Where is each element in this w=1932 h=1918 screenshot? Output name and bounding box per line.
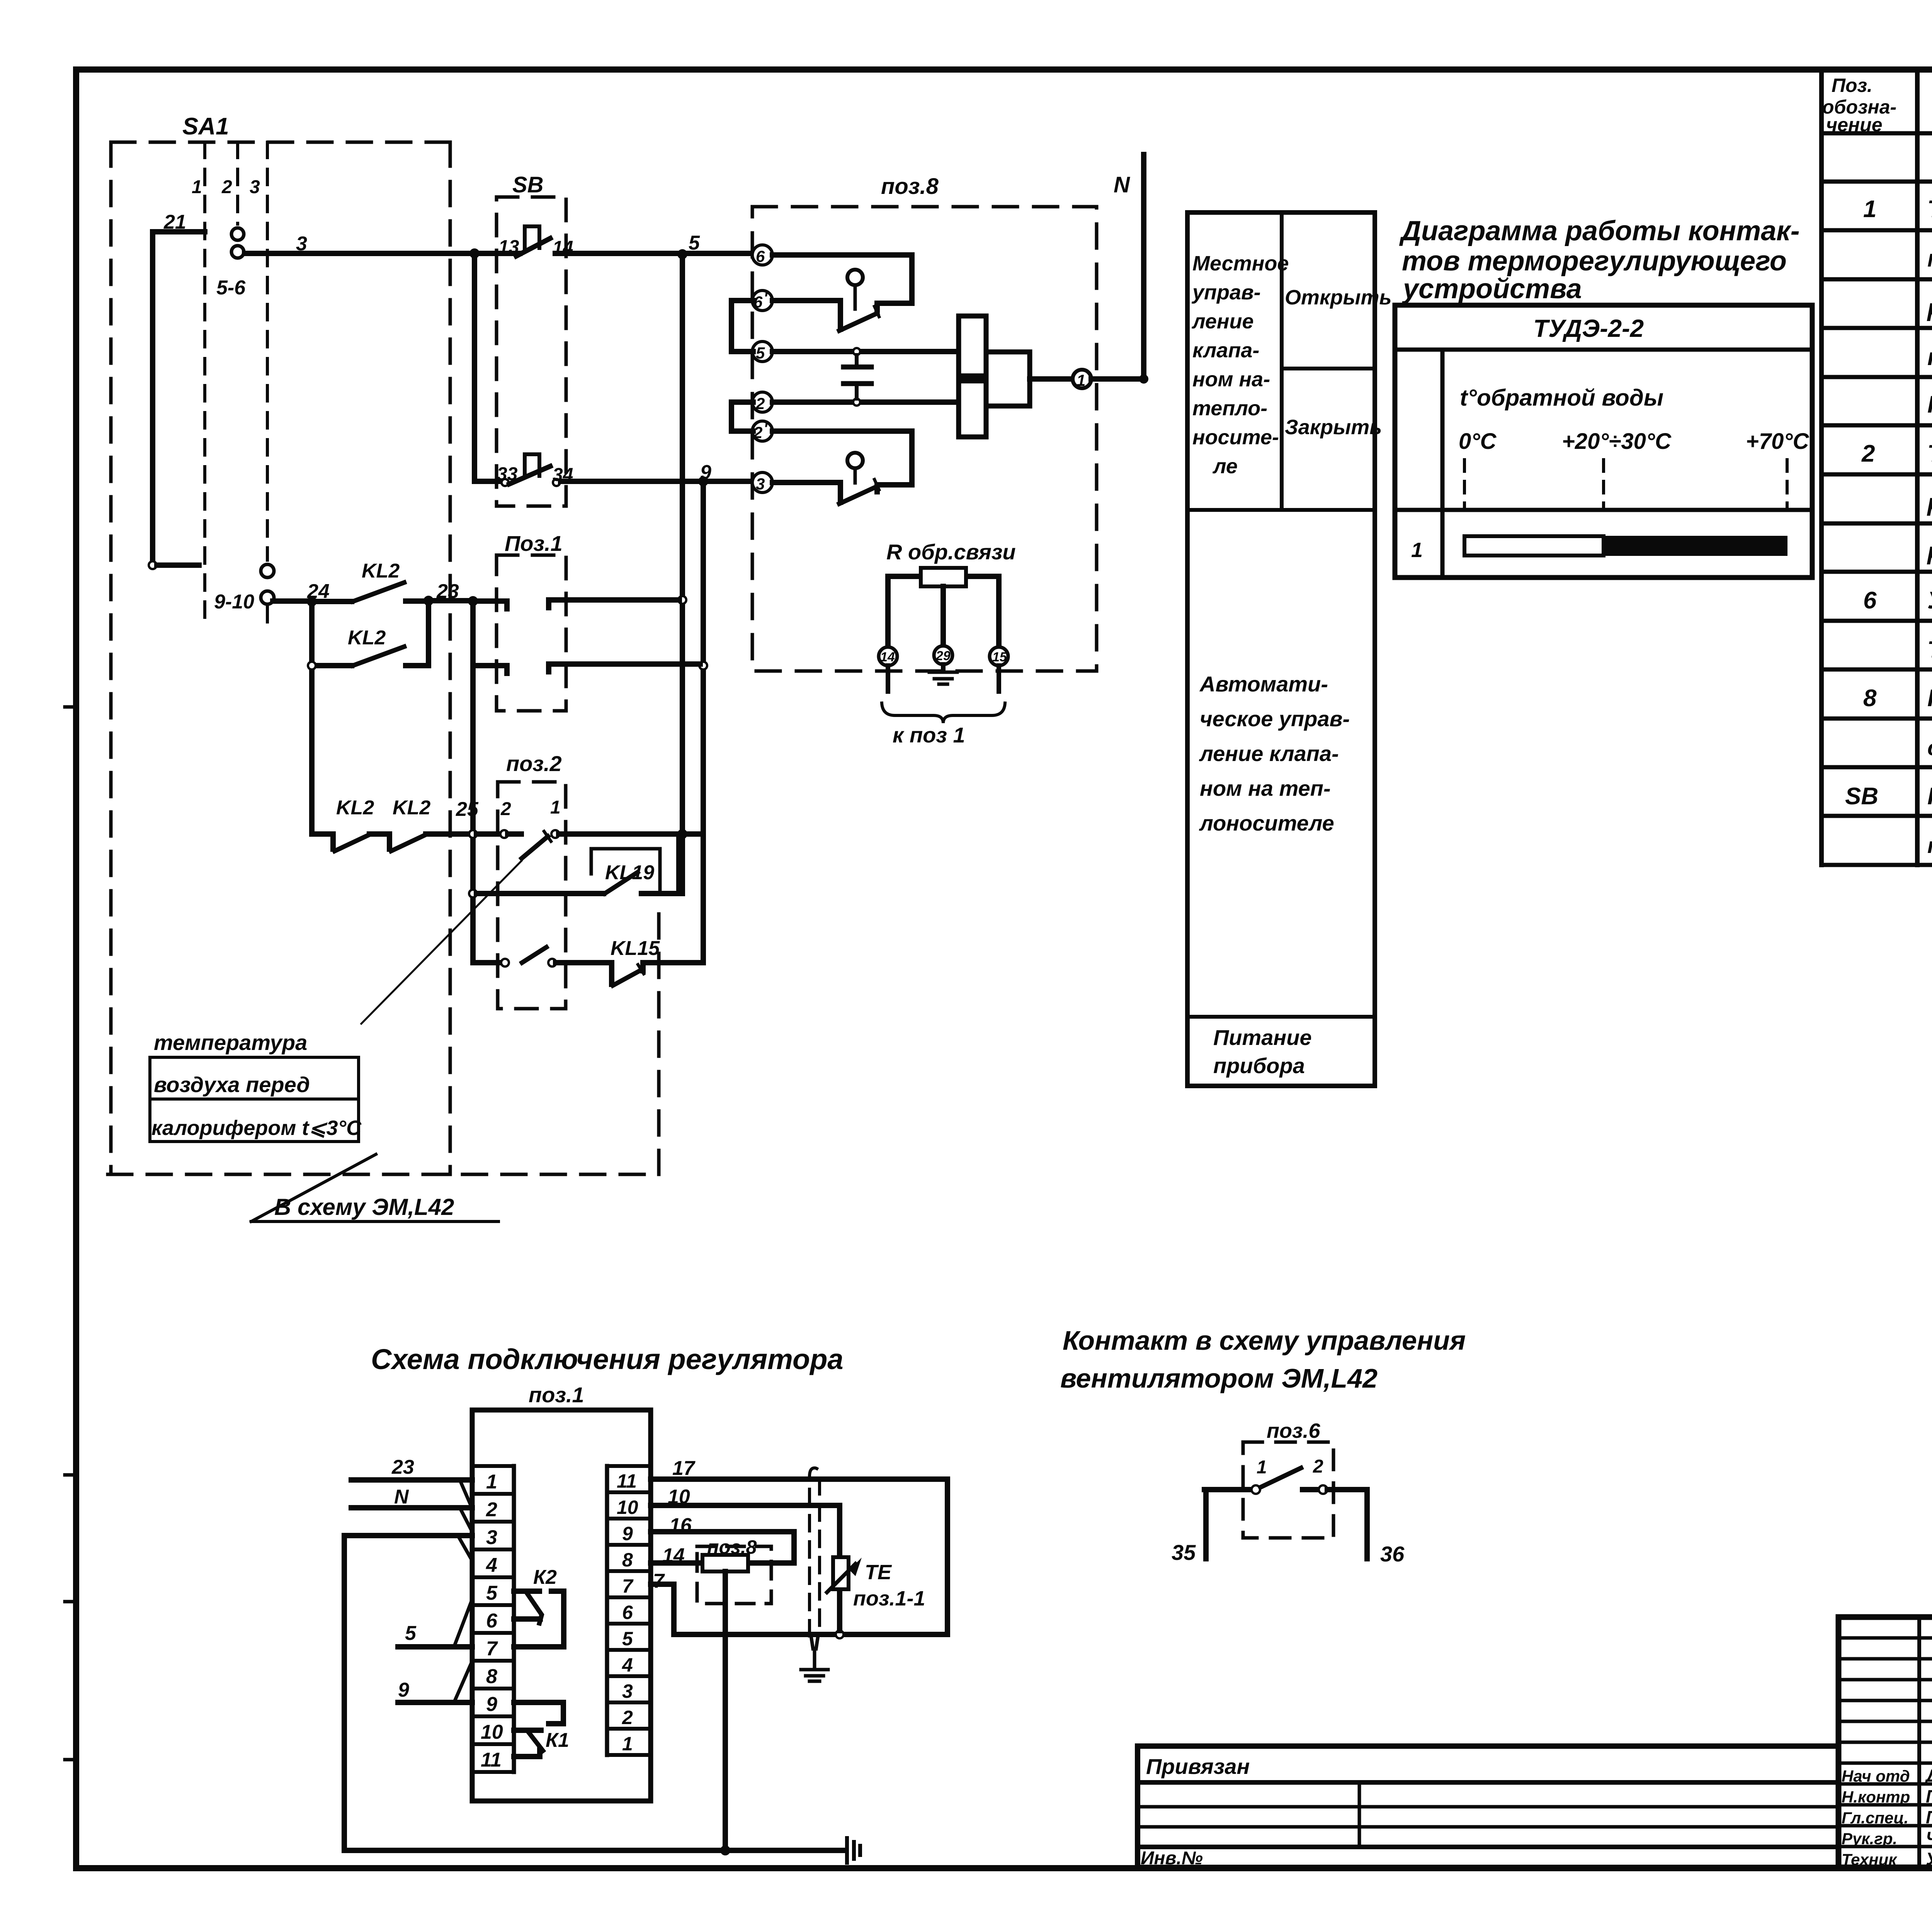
svg-text:чение: чение [1826, 114, 1883, 136]
svg-text:5: 5 [689, 232, 700, 254]
svg-text:SB: SB [512, 172, 544, 197]
svg-text:В схему ЭМ,L42: В схему ЭМ,L42 [274, 1194, 454, 1220]
svg-text:8: 8 [1863, 685, 1877, 712]
svg-text:4: 4 [622, 1654, 633, 1676]
svg-text:34: 34 [553, 465, 573, 485]
svg-text:ле: ле [1212, 455, 1238, 478]
svg-text:воздуха перед: воздуха перед [154, 1072, 310, 1097]
svg-text:ром температуры электрическим: ром температуры электрическим про- [1927, 295, 1932, 321]
svg-text:29: 29 [935, 649, 951, 663]
svg-text:8: 8 [486, 1665, 497, 1688]
svg-text:KL2: KL2 [336, 797, 374, 819]
svg-text:25: 25 [456, 798, 479, 821]
svg-text:7: 7 [653, 1570, 665, 1592]
svg-text:Инв.№: Инв.№ [1141, 1848, 1203, 1869]
svg-text:5: 5 [756, 344, 765, 362]
svg-text:36: 36 [1380, 1542, 1405, 1566]
svg-text:рующий ТКП-100ЭК Пределы из: рующий ТКП-100ЭК Пределы изме- [1927, 489, 1932, 516]
svg-text:1: 1 [622, 1733, 633, 1755]
svg-text:с исполнительным механизмом М: с исполнительным механизмом МЭО-0,63 [1927, 736, 1932, 760]
svg-text:Питание: Питание [1213, 1025, 1312, 1050]
svg-text:5-6: 5-6 [216, 277, 246, 299]
svg-text:поз.8: поз.8 [707, 1536, 757, 1558]
svg-text:14: 14 [662, 1544, 685, 1567]
svg-text:порциональным ТЭ2П: порциональным ТЭ2П [1927, 344, 1932, 370]
svg-text:Техник: Техник [1842, 1850, 1897, 1869]
svg-text:Устройство терморегулирующее: Устройство терморегулирующее [1927, 587, 1932, 614]
svg-text:6: 6 [753, 293, 763, 311]
svg-text:9-10: 9-10 [214, 591, 254, 613]
svg-text:+20°÷30°С: +20°÷30°С [1562, 429, 1672, 454]
svg-text:R обр.связи: R обр.связи [886, 540, 1016, 564]
svg-text:5: 5 [405, 1622, 417, 1644]
svg-text:14: 14 [553, 238, 573, 258]
svg-text:23: 23 [391, 1456, 414, 1478]
svg-text:Попов: Попов [1926, 1786, 1932, 1806]
svg-text:1: 1 [1077, 371, 1085, 389]
svg-text:ТЕ: ТЕ [865, 1561, 892, 1584]
svg-text:24: 24 [307, 580, 330, 603]
svg-text:ление клапа-: ление клапа- [1199, 741, 1339, 766]
svg-text:Поз.1: Поз.1 [505, 531, 563, 556]
svg-text:3: 3 [756, 475, 765, 493]
svg-text:устройства: устройства [1402, 274, 1582, 304]
svg-text:9: 9 [486, 1693, 497, 1716]
svg-text:медный в комплекте с регулят: медный в комплекте с регулято- [1927, 245, 1932, 272]
svg-text:3: 3 [486, 1526, 497, 1549]
svg-text:10: 10 [668, 1486, 690, 1508]
svg-text:2: 2 [486, 1498, 497, 1521]
svg-text:3: 3 [622, 1680, 633, 1702]
svg-text:управ-: управ- [1191, 281, 1261, 304]
svg-text:KL2: KL2 [348, 627, 386, 649]
svg-text:2: 2 [1861, 440, 1875, 467]
svg-text:калорифером t⩽3°С: калорифером t⩽3°С [151, 1116, 362, 1140]
svg-text:N: N [394, 1486, 409, 1508]
svg-text:к поз 1: к поз 1 [893, 723, 965, 747]
svg-text:температура: температура [154, 1030, 307, 1055]
svg-text:7: 7 [622, 1575, 634, 1597]
svg-text:6: 6 [622, 1602, 633, 1623]
svg-text:2: 2 [753, 423, 762, 442]
svg-text:Нач отд: Нач отд [1842, 1767, 1910, 1785]
svg-text:Диаграмма работы контак-: Диаграмма работы контак- [1399, 216, 1800, 246]
svg-text:ление: ление [1191, 310, 1254, 333]
svg-text:N: N [1114, 172, 1130, 197]
svg-text:ТУДЭ-2-2. Пределы измерений 0: ТУДЭ-2-2. Пределы измерений 0-100°С [1927, 637, 1932, 663]
svg-text:6: 6 [756, 247, 765, 265]
svg-text:ТУДЭ-2-2: ТУДЭ-2-2 [1533, 314, 1644, 342]
svg-text:клапа-: клапа- [1192, 339, 1259, 362]
svg-text:1: 1 [1257, 1457, 1267, 1478]
svg-text:К2: К2 [533, 1566, 557, 1588]
svg-text:Рук.гр.: Рук.гр. [1842, 1830, 1897, 1848]
svg-text:2: 2 [622, 1707, 633, 1728]
svg-text:5: 5 [486, 1582, 498, 1604]
svg-text:К1: К1 [546, 1729, 569, 1752]
svg-text:9: 9 [622, 1523, 633, 1544]
svg-text:KL15: KL15 [611, 937, 660, 960]
svg-text:KL2: KL2 [362, 560, 400, 582]
svg-text:KL2: KL2 [393, 797, 430, 819]
svg-text:SB: SB [1845, 783, 1878, 810]
svg-text:ном на теп-: ном на теп- [1200, 776, 1331, 800]
svg-text:6: 6 [1863, 587, 1877, 614]
svg-text:поз.8: поз.8 [881, 174, 939, 199]
svg-text:Привязан: Привязан [1146, 1754, 1250, 1779]
svg-text:2: 2 [755, 394, 765, 413]
svg-text:Закрыть: Закрыть [1285, 416, 1382, 439]
svg-text:Автомати-: Автомати- [1199, 672, 1328, 696]
svg-text:KL19: KL19 [605, 861, 654, 884]
svg-text:15: 15 [992, 650, 1007, 664]
svg-text:1: 1 [486, 1471, 497, 1493]
svg-text:11: 11 [617, 1470, 637, 1492]
svg-text:тепло-: тепло- [1192, 397, 1267, 420]
svg-text:8: 8 [622, 1549, 633, 1571]
svg-text:поз.2: поз.2 [506, 751, 562, 776]
svg-text:поз.6: поз.6 [1267, 1419, 1321, 1442]
svg-text:17: 17 [672, 1457, 696, 1480]
svg-text:2: 2 [221, 177, 232, 197]
svg-text:10: 10 [481, 1721, 503, 1743]
svg-text:2: 2 [500, 799, 511, 819]
svg-text:t°обратной воды: t°обратной воды [1460, 385, 1663, 411]
svg-text:0°С: 0°С [1459, 429, 1497, 454]
svg-text:Схема подключения регулятора: Схема подключения регулятора [371, 1343, 844, 1375]
svg-text:Гл.спец.: Гл.спец. [1842, 1809, 1908, 1827]
svg-text:поз.1: поз.1 [529, 1383, 584, 1407]
svg-text:Пост управления кнопочный, 2: Пост управления кнопочный, 2 толка- [1927, 783, 1932, 810]
svg-text:поз.1-1: поз.1-1 [853, 1587, 925, 1610]
svg-text:1: 1 [192, 177, 202, 197]
svg-text:SA1: SA1 [182, 113, 229, 140]
svg-text:11: 11 [481, 1749, 502, 1771]
svg-text:Попов: Попов [1926, 1807, 1932, 1827]
svg-text:Местное: Местное [1192, 252, 1289, 275]
svg-text:прибора: прибора [1213, 1053, 1305, 1078]
svg-text:4: 4 [486, 1554, 497, 1577]
svg-text:1: 1 [1863, 196, 1876, 223]
svg-text:носите-: носите- [1192, 426, 1279, 449]
svg-text:10: 10 [617, 1497, 638, 1518]
svg-text:Чубова: Чубова [1926, 1828, 1932, 1848]
svg-text:Поз.: Поз. [1832, 75, 1872, 96]
svg-text:ческое управ-: ческое управ- [1200, 707, 1350, 731]
svg-text:1: 1 [1411, 539, 1423, 562]
svg-text:7: 7 [486, 1638, 498, 1660]
svg-text:Термопреобразователь сопротив: Термопреобразователь сопротивления [1927, 196, 1932, 223]
svg-text:13: 13 [498, 237, 519, 257]
svg-text:теля ПКЕ-212-2У3-3/4" ТУ16-6: теля ПКЕ-212-2У3-3/4" ТУ16-642006-83 [1927, 833, 1932, 858]
svg-text:2: 2 [1313, 1456, 1323, 1477]
svg-text:33: 33 [497, 464, 518, 484]
svg-text:Контакт в схему управления: Контакт в схему управления [1063, 1325, 1466, 1356]
svg-text:Пределы регулирования 0-40°С: Пределы регулирования 0-40°С [1927, 391, 1932, 418]
svg-text:Клапан регулирующий 25ч939 Н: Клапан регулирующий 25ч939 НЖ [1927, 685, 1932, 712]
svg-text:16: 16 [669, 1514, 692, 1537]
svg-text:лоносителе: лоносителе [1199, 811, 1334, 835]
svg-text:+70°С: +70°С [1746, 429, 1810, 454]
svg-text:ном на-: ном на- [1192, 368, 1270, 391]
svg-text:Ушакова: Ушакова [1926, 1849, 1932, 1869]
svg-text:23: 23 [436, 580, 459, 603]
svg-text:9: 9 [398, 1679, 409, 1701]
svg-text:6: 6 [486, 1610, 498, 1632]
svg-text:вентилятором ЭМ,L42: вентилятором ЭМ,L42 [1060, 1363, 1378, 1393]
svg-text:5: 5 [622, 1628, 633, 1650]
svg-text:1: 1 [550, 797, 561, 818]
svg-text:3: 3 [250, 177, 260, 197]
svg-text:3: 3 [296, 233, 307, 255]
svg-text:21: 21 [163, 211, 186, 233]
svg-text:рений -25+35°С: рений -25+35°С [1927, 538, 1932, 565]
svg-text:9: 9 [700, 461, 711, 484]
svg-text:тов терморегулирующего: тов терморегулирующего [1402, 246, 1787, 277]
svg-text:14: 14 [880, 650, 895, 664]
svg-text:35: 35 [1172, 1540, 1196, 1565]
svg-text:Открыть: Открыть [1285, 286, 1392, 309]
svg-text:Термометр показывающий сигна: Термометр показывающий сигнализи- [1927, 440, 1932, 467]
svg-text:Н.контр: Н.контр [1842, 1788, 1910, 1806]
